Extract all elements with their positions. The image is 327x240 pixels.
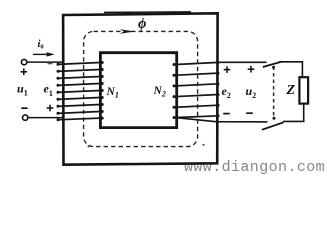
flux path Φ (dashed loop) (84, 31, 198, 146)
svg-text:www.diangon.com: www.diangon.com (184, 159, 325, 176)
minus sign (u2 bottom) (246, 112, 253, 114)
node dot top of dashed line (272, 66, 275, 69)
plus sign (u1 top) (21, 69, 28, 76)
wire: load bottom (283, 104, 304, 122)
svg-text:u2: u2 (246, 84, 257, 100)
node dot bottom of dashed line (273, 117, 276, 120)
wire: top to load corner (279, 62, 302, 78)
plus sign (e2 top) (224, 66, 231, 73)
transformer core window (inner outline) (100, 53, 176, 128)
current arrow i0 (33, 53, 49, 55)
plus sign (u2 top) (248, 66, 255, 73)
wire: secondary top to load (216, 61, 267, 63)
svg-text:u1: u1 (17, 82, 28, 98)
wire: bottom-left from terminal to winding (28, 117, 62, 119)
transformer core outer outline (63, 13, 218, 164)
flux arrow (120, 29, 136, 34)
svg-text:N1: N1 (106, 86, 119, 100)
wire: secondary bottom (174, 117, 267, 122)
wire: top-left from terminal to winding (27, 61, 62, 63)
minus sign (u1 bottom) (21, 107, 27, 109)
flux corner dots (88, 145, 90, 147)
core top edge emphasis (104, 11, 191, 14)
winding N2 (secondary coil) (173, 61, 220, 119)
switch tick (bottom) (262, 122, 284, 130)
svg-text:N2: N2 (153, 85, 166, 99)
artifact mark under top-left wire (48, 63, 53, 65)
winding N1 (primary coil) (57, 61, 104, 121)
svg-text:ϕ: ϕ (138, 16, 146, 32)
terminal (bottom-left) (23, 115, 28, 120)
switch tick (top) (263, 62, 282, 67)
plus sign (e1 bottom) (47, 105, 54, 112)
svg-text:e1: e1 (44, 82, 53, 98)
load Z (resistor box) (299, 77, 308, 103)
svg-text:e2: e2 (222, 84, 231, 100)
minus sign (e2 bottom) (223, 113, 230, 115)
svg-text:i0: i0 (38, 39, 44, 50)
terminal (top-left) (21, 59, 26, 64)
dashed terminal line (right) (273, 67, 275, 120)
svg-text:Z: Z (286, 83, 296, 98)
